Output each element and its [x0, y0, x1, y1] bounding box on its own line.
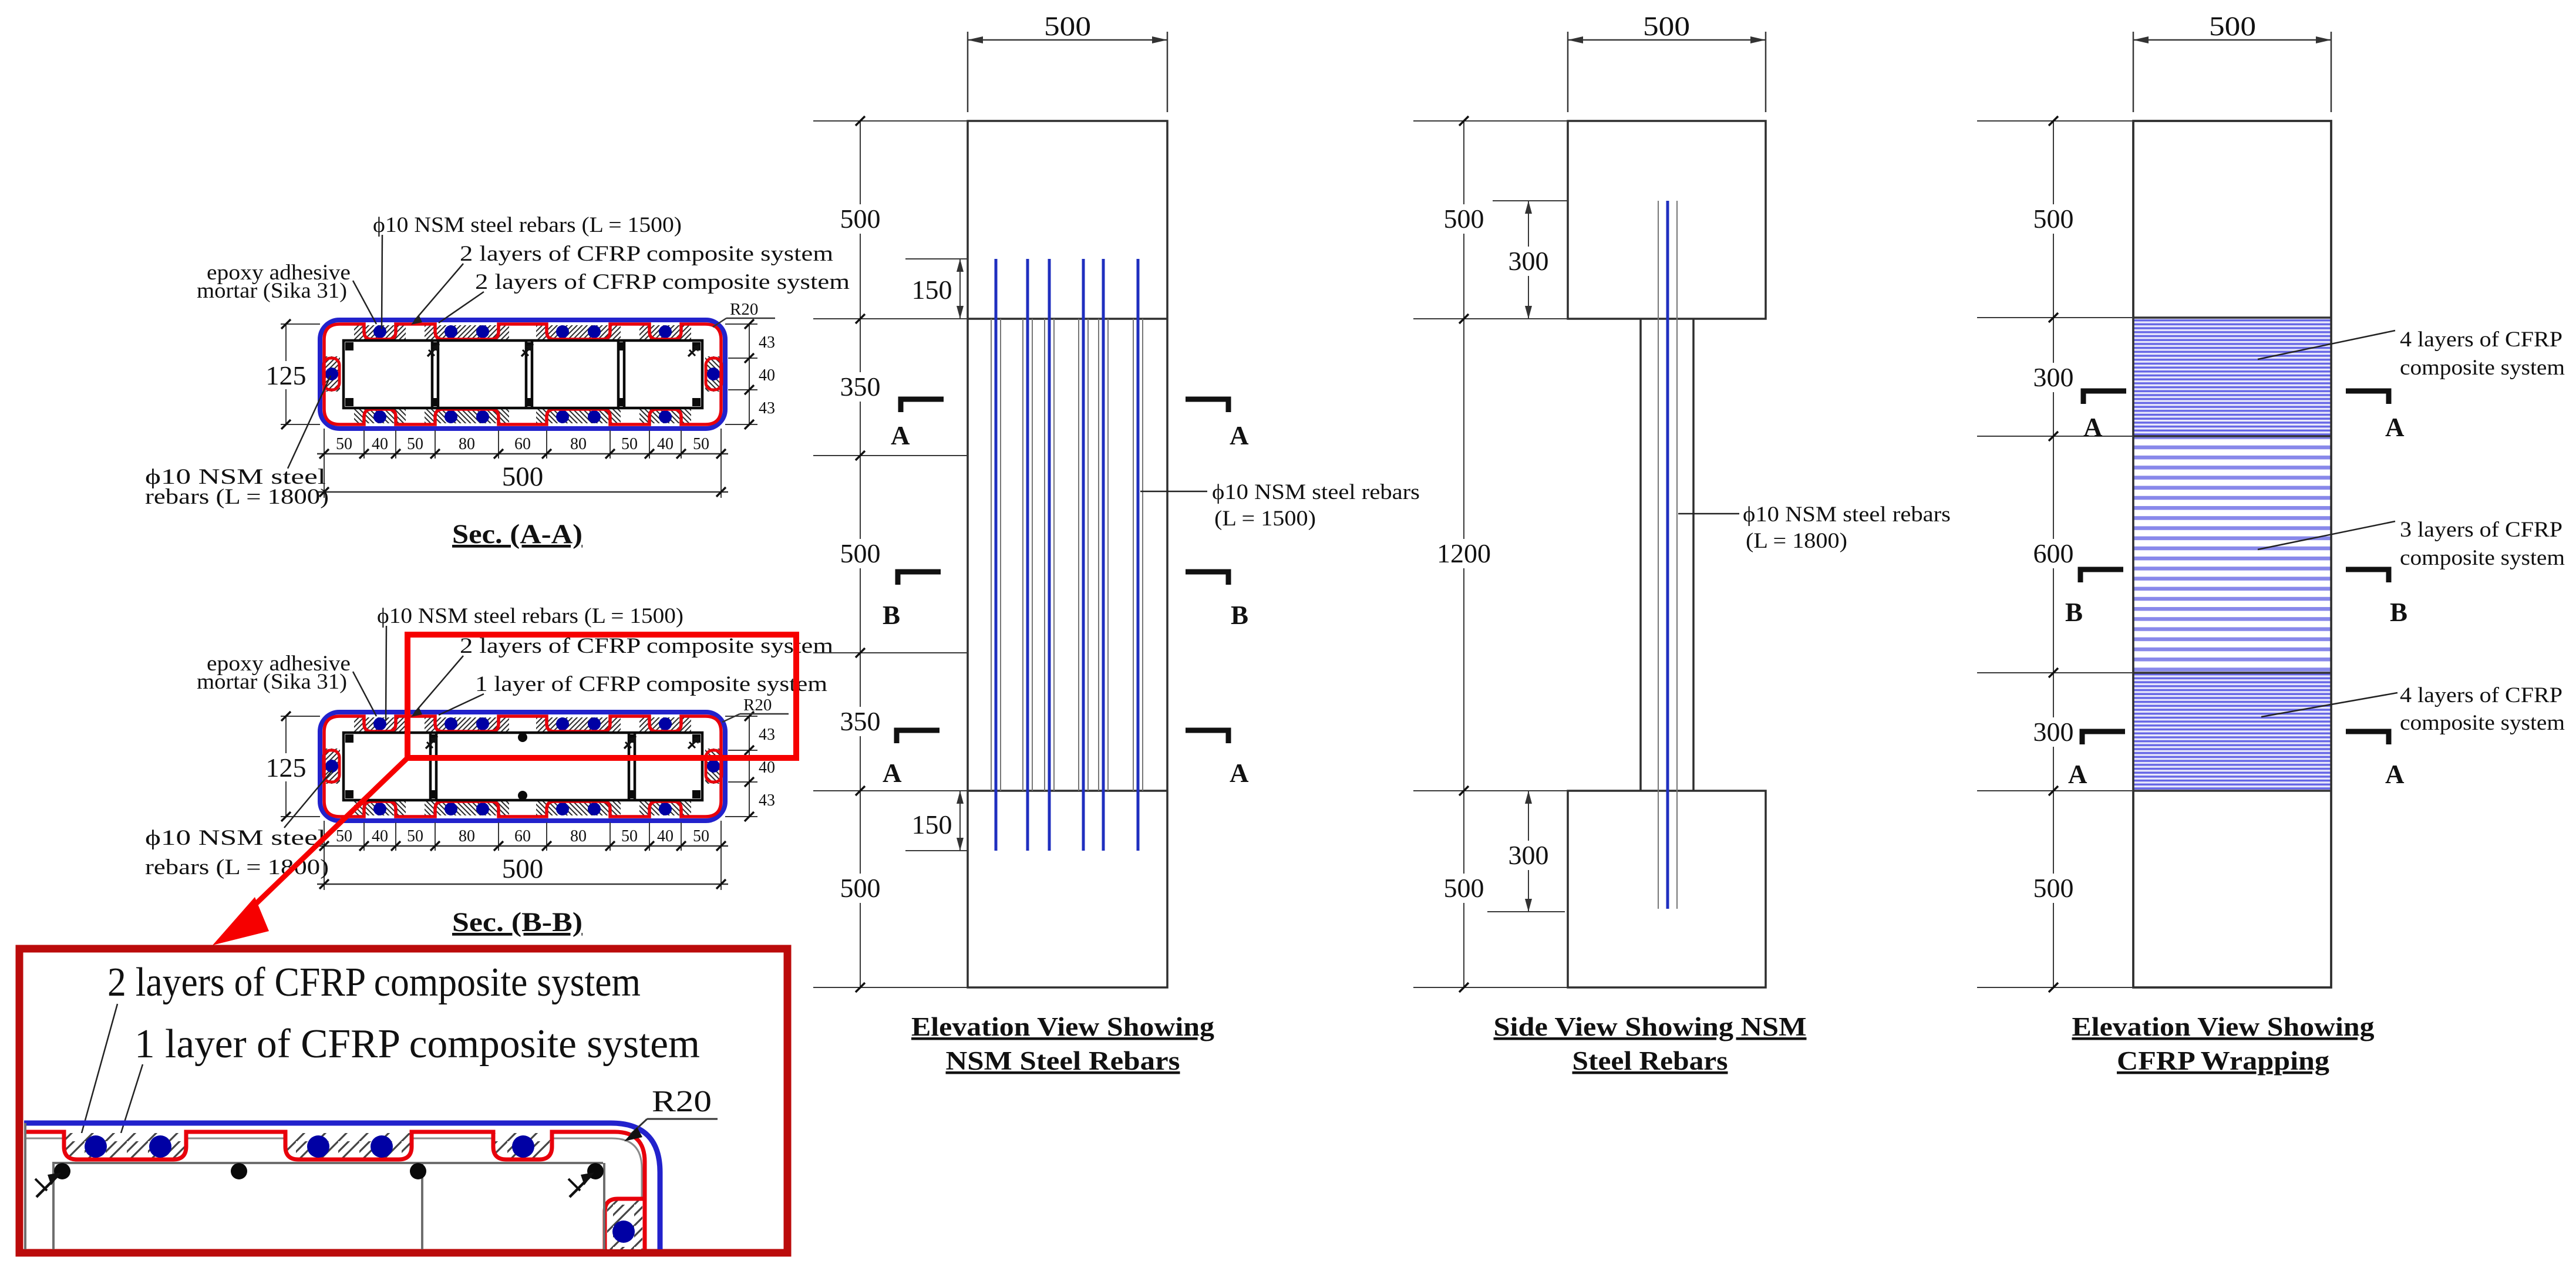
detail epoxy red line	[24, 1132, 645, 1249]
red zoom arrow	[251, 758, 408, 908]
svg-text:ϕ10 NSM steel rebars: ϕ10 NSM steel rebars	[1743, 503, 1951, 527]
svg-text:300: 300	[1508, 246, 1549, 276]
svg-text:600: 600	[2033, 538, 2074, 568]
svg-text:3 layers of CFRP: 3 layers of CFRP	[2400, 518, 2562, 542]
stem	[1639, 319, 1642, 791]
svg-text:Side View Showing NSM: Side View Showing NSM	[1494, 1012, 1807, 1041]
section cut B right	[1186, 572, 1228, 585]
svg-text:150: 150	[912, 275, 952, 305]
svg-text:Steel Rebars: Steel Rebars	[1572, 1046, 1728, 1076]
CFRP band 4 layers bottom	[2133, 673, 2331, 791]
svg-text:NSM Steel Rebars: NSM Steel Rebars	[946, 1046, 1180, 1076]
detail concrete surface line	[24, 1138, 642, 1199]
column outline CFRP	[2133, 121, 2331, 987]
svg-text:500: 500	[502, 854, 544, 884]
svg-text:B: B	[1231, 601, 1248, 630]
section cut A right	[1186, 399, 1228, 412]
svg-text:80: 80	[459, 827, 475, 845]
groove lines side	[1658, 201, 1659, 909]
detail CFRP blue line	[24, 1123, 660, 1249]
svg-text:B: B	[2065, 598, 2083, 627]
svg-text:2 layers of CFRP composite sys: 2 layers of CFRP composite system	[475, 270, 850, 294]
svg-text:50: 50	[693, 827, 709, 845]
red highlight rectangle on Sec B-B	[408, 635, 796, 758]
svg-text:50: 50	[336, 435, 352, 453]
svg-text:500: 500	[840, 538, 881, 568]
svg-text:1200: 1200	[1437, 538, 1491, 568]
svg-text:mortar (Sika 31): mortar (Sika 31)	[197, 279, 347, 303]
column outline	[968, 121, 1167, 987]
svg-text:60: 60	[514, 827, 531, 845]
svg-text:43: 43	[759, 399, 775, 417]
detail groove cup 2 hatch	[285, 1133, 412, 1159]
svg-text:60: 60	[514, 435, 531, 453]
section cut B left (CFRP)	[2080, 569, 2123, 582]
svg-text:2 layers of CFRP composite sys: 2 layers of CFRP composite system	[107, 960, 641, 1005]
svg-text:350: 350	[840, 372, 881, 402]
svg-text:ϕ10 NSM steel: ϕ10 NSM steel	[145, 826, 326, 850]
svg-text:80: 80	[459, 435, 475, 453]
dimensions Sec A-A	[261, 300, 775, 549]
svg-text:2 layers of CFRP composite sys: 2 layers of CFRP composite system	[460, 242, 833, 266]
svg-text:43: 43	[759, 333, 775, 352]
callout labels Sec A-A	[145, 213, 850, 509]
band boundary lines	[2133, 318, 2331, 791]
dimensions 43/40/43 Sec B-B	[725, 716, 757, 817]
section cut A left (CFRP top)	[2083, 391, 2126, 404]
top grooves with hatch + NSM rebars Sec B-B	[354, 716, 691, 733]
svg-text:R20: R20	[743, 696, 772, 714]
300 dimension top (side)	[1493, 200, 1568, 201]
column sides redraw	[2133, 121, 2331, 987]
svg-text:50: 50	[336, 827, 352, 845]
svg-text:500: 500	[1444, 873, 1484, 903]
dimension 500 Sec A-A	[317, 491, 728, 493]
svg-text:40: 40	[372, 435, 388, 453]
extension lines bottom Sec A-A	[324, 429, 721, 498]
detail groove cup 1 hatch	[64, 1133, 186, 1159]
section cut A right (CFRP bottom)	[2346, 731, 2389, 744]
svg-text:R20: R20	[652, 1085, 712, 1118]
CFRP band 4 layers top	[2133, 318, 2331, 436]
svg-text:Sec. (B-B): Sec. (B-B)	[452, 907, 582, 938]
svg-text:4 layers of CFRP: 4 layers of CFRP	[2400, 683, 2562, 707]
bottom grooves with hatch + NSM rebars Sec A-A	[354, 408, 691, 425]
top width dimension 500 (side)	[1568, 32, 1766, 112]
dimension 125 Sec B-B	[281, 716, 320, 817]
section cut A left	[901, 399, 944, 412]
left dimension chain (side)	[1413, 121, 1568, 987]
svg-text:500: 500	[2033, 873, 2074, 903]
left dimension chain	[813, 121, 968, 987]
detail cell wall lines	[25, 1123, 604, 1249]
bottom grooves with hatch + NSM rebars Sec B-B	[354, 800, 691, 817]
inner stirrup rectangle Sec B-B	[344, 733, 702, 800]
svg-text:A: A	[1230, 758, 1249, 788]
svg-text:ϕ10 NSM steel rebars (L = 1500: ϕ10 NSM steel rebars (L = 1500)	[373, 213, 682, 237]
svg-text:125: 125	[266, 360, 307, 390]
segment dimension chain Sec B-B	[317, 845, 728, 847]
joint line top	[968, 318, 1167, 320]
svg-text:43: 43	[759, 726, 775, 744]
label 4 layers bottom	[2261, 693, 2397, 717]
callout labels Sec B-B	[145, 604, 833, 879]
150 dimension top	[905, 258, 968, 259]
svg-text:A: A	[883, 758, 902, 788]
detail inner concrete line	[52, 1162, 603, 1164]
detail NSM rebar dots	[85, 1135, 635, 1243]
svg-text:Elevation View Showing: Elevation View Showing	[911, 1012, 1215, 1041]
rebar leader + label	[1140, 491, 1207, 493]
stirrup dividers Sec A-A	[432, 340, 624, 408]
left dimension chain (CFRP)	[1977, 121, 2133, 987]
svg-text:300: 300	[2033, 362, 2074, 392]
svg-text:500: 500	[2209, 11, 2256, 42]
epoxy outline (red) Sec B-B	[324, 716, 721, 817]
section cut B right (CFRP)	[2346, 569, 2389, 582]
svg-text:125: 125	[266, 753, 307, 783]
detail hooks	[35, 1172, 594, 1197]
CFRP wrap (blue) Sec A-A	[320, 320, 725, 429]
svg-text:A: A	[2068, 760, 2087, 789]
svg-text:R20: R20	[730, 300, 758, 319]
svg-text:A: A	[891, 421, 910, 450]
label 3 layers	[2258, 521, 2395, 549]
stirrup hooks Sec B-B	[426, 736, 701, 749]
svg-text:50: 50	[621, 435, 638, 453]
stirrup hooks Sec A-A	[427, 344, 701, 356]
svg-text:A: A	[2385, 760, 2405, 789]
svg-text:50: 50	[693, 435, 709, 453]
svg-text:500: 500	[502, 461, 544, 492]
svg-text:A: A	[2385, 413, 2405, 442]
150 dimension bottom	[905, 850, 968, 851]
detail corner rebar dots (black)	[54, 1163, 604, 1179]
svg-text:mortar (Sika 31): mortar (Sika 31)	[197, 670, 347, 694]
extension lines bottom Sec B-B	[324, 821, 721, 890]
corner rebar squares Sec B-B	[345, 734, 701, 798]
epoxy outline (red) Sec A-A	[324, 324, 721, 424]
300 dimension bottom (side)	[1487, 911, 1565, 912]
svg-text:4 layers of CFRP: 4 layers of CFRP	[2400, 328, 2562, 352]
svg-text:composite system: composite system	[2400, 356, 2565, 380]
svg-text:rebars (L = 1800): rebars (L = 1800)	[145, 485, 329, 509]
label 4 layers top	[2258, 331, 2395, 359]
mid-edge rebar dots Sec B-B	[518, 733, 527, 742]
rebar leader + label (side)	[1678, 513, 1739, 515]
section cut A left (CFRP bottom)	[2082, 731, 2125, 744]
svg-text:1 layer of CFRP composite syst: 1 layer of CFRP composite system	[134, 1021, 700, 1067]
top block	[1568, 121, 1766, 319]
corner rebar squares Sec A-A	[345, 342, 701, 406]
svg-text:500: 500	[1044, 11, 1091, 42]
svg-text:50: 50	[407, 827, 423, 845]
svg-text:ϕ10 NSM steel rebars (L = 1500: ϕ10 NSM steel rebars (L = 1500)	[377, 604, 683, 628]
side NSM rebar	[1666, 201, 1669, 909]
svg-text:350: 350	[840, 706, 881, 736]
section cut B left	[898, 572, 941, 585]
detail groove cup 3 hatch	[493, 1133, 552, 1159]
inner stirrup rectangle Sec A-A	[344, 340, 702, 408]
section cut A right (CFRP top)	[2346, 391, 2389, 404]
svg-text:150: 150	[912, 810, 952, 840]
top width dimension 500 (CFRP)	[2133, 32, 2331, 112]
svg-text:composite system: composite system	[2400, 711, 2565, 735]
segment dimension labels Sec B-B	[336, 827, 709, 845]
joint line bottom	[968, 790, 1167, 792]
svg-text:(L = 1500): (L = 1500)	[1214, 507, 1316, 531]
detail side groove hatch	[607, 1200, 642, 1249]
svg-text:300: 300	[2033, 717, 2074, 747]
segment dimension labels Sec A-A	[336, 435, 709, 453]
dimensions Sec B-B	[261, 696, 789, 938]
dimension 500 Sec B-B	[317, 884, 728, 885]
top width dimension 500	[968, 32, 1167, 112]
svg-text:A: A	[1230, 421, 1249, 450]
svg-text:2 layers of CFRP composite sys: 2 layers of CFRP composite system	[460, 634, 833, 658]
svg-text:40: 40	[759, 366, 775, 385]
detail leader 2 layers	[79, 1004, 117, 1144]
svg-text:(L = 1800): (L = 1800)	[1746, 529, 1847, 553]
detail leader 1 layer	[121, 1064, 143, 1133]
NSM rebars (blue)	[996, 259, 1138, 851]
CFRP wrap (blue) Sec B-B	[320, 712, 725, 821]
svg-text:CFRP Wrapping: CFRP Wrapping	[2117, 1046, 2330, 1076]
side grooves Sec A-A	[324, 356, 722, 392]
svg-text:40: 40	[759, 758, 775, 777]
svg-text:500: 500	[2033, 204, 2074, 234]
svg-text:40: 40	[372, 827, 388, 845]
svg-text:80: 80	[570, 827, 587, 845]
stirrup dividers Sec B-B	[430, 733, 635, 800]
svg-text:80: 80	[570, 435, 587, 453]
svg-text:1 layer of CFRP composite syst: 1 layer of CFRP composite system	[475, 672, 827, 696]
svg-text:B: B	[883, 601, 900, 630]
svg-text:43: 43	[759, 791, 775, 810]
svg-text:50: 50	[621, 827, 638, 845]
svg-text:40: 40	[657, 435, 674, 453]
detail box border	[19, 949, 787, 1253]
dimensions 43/40/43 Sec A-A	[725, 324, 757, 424]
svg-text:Elevation View Showing: Elevation View Showing	[2072, 1012, 2375, 1041]
CFRP band 3 layers middle	[2133, 436, 2331, 673]
dimension 125 Sec A-A	[281, 324, 320, 424]
groove edge lines	[991, 319, 1143, 791]
section cut A bottom right	[1186, 730, 1228, 743]
side grooves Sec B-B	[324, 749, 722, 784]
svg-text:Sec. (A-A): Sec. (A-A)	[452, 519, 582, 549]
svg-text:composite system: composite system	[2400, 546, 2565, 570]
svg-text:500: 500	[1444, 204, 1484, 234]
bottom block	[1568, 791, 1766, 987]
svg-text:500: 500	[1643, 11, 1690, 42]
svg-text:ϕ10 NSM steel rebars: ϕ10 NSM steel rebars	[1212, 480, 1420, 504]
svg-text:B: B	[2390, 598, 2407, 627]
svg-text:A: A	[2083, 413, 2103, 442]
top grooves with hatch + NSM rebars Sec A-A	[354, 323, 691, 340]
svg-text:500: 500	[840, 873, 881, 903]
svg-text:500: 500	[840, 204, 881, 234]
section cut A bottom left	[897, 730, 940, 743]
svg-text:40: 40	[657, 827, 674, 845]
svg-text:300: 300	[1508, 840, 1549, 870]
segment dimension chain Sec A-A	[317, 453, 728, 455]
svg-text:50: 50	[407, 435, 423, 453]
